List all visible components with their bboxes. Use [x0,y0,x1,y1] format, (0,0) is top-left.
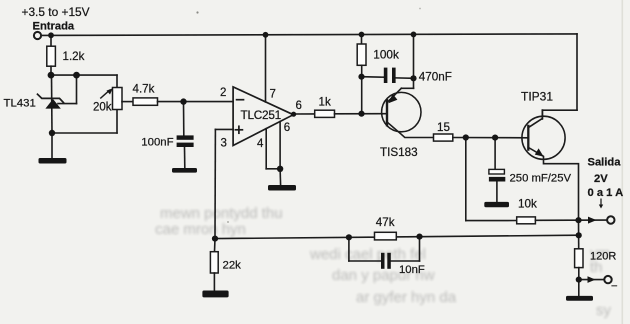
svg-text:0 a 1 A: 0 a 1 A [588,187,624,199]
svg-text:2V: 2V [594,173,608,185]
svg-text:ar gyfer hyn da: ar gyfer hyn da [356,289,457,306]
svg-text:1.2k: 1.2k [63,50,85,63]
svg-text:TIS183: TIS183 [380,146,418,159]
svg-text:6: 6 [296,100,302,112]
svg-text:TL431: TL431 [4,98,36,110]
svg-text:cae mron hyn: cae mron hyn [155,221,246,238]
svg-text:3: 3 [221,138,227,150]
svg-text:2: 2 [220,87,226,99]
svg-text:4.7k: 4.7k [133,83,155,96]
svg-text:Entrada: Entrada [33,21,75,33]
svg-text:10k: 10k [518,198,537,211]
svg-text:100nF: 100nF [141,136,173,148]
svg-text:7: 7 [270,89,276,101]
svg-text:1k: 1k [319,96,331,109]
svg-text:250 mF/25V: 250 mF/25V [510,172,572,184]
svg-text:100k: 100k [373,48,399,62]
svg-text:4: 4 [257,138,264,150]
svg-text:TIP31: TIP31 [521,90,553,104]
svg-text:6: 6 [284,122,290,134]
svg-text:47k: 47k [376,216,395,229]
svg-text:15: 15 [437,121,451,134]
svg-text:Salida: Salida [588,157,622,169]
svg-text:10nF: 10nF [399,264,425,276]
svg-text:470nF: 470nF [419,70,452,83]
svg-text:TLC251: TLC251 [241,108,281,122]
svg-text:120R: 120R [590,250,616,262]
svg-text:+3.5 to +15V: +3.5 to +15V [22,5,90,19]
svg-text:22k: 22k [223,259,242,271]
svg-text:mewn pontydd thu: mewn pontydd thu [160,205,283,222]
svg-text:sy: sy [596,302,612,319]
svg-text:20k: 20k [93,102,112,114]
svg-text:–: – [612,281,618,292]
